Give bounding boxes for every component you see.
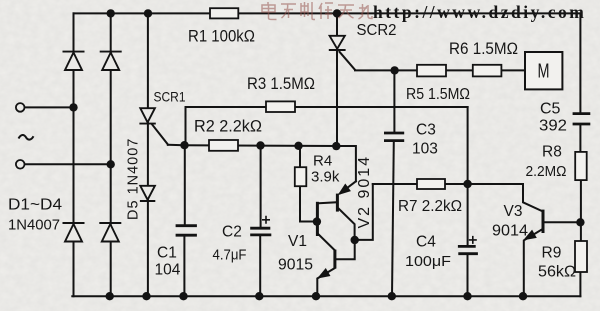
node bottom D5: [142, 292, 150, 300]
wire right rail R9-bottom: [579, 272, 581, 296]
wire right rail C5-R8: [579, 125, 581, 152]
svg-text:V2 9014: V2 9014: [356, 155, 373, 229]
svg-text:R1 100kΩ: R1 100kΩ: [188, 28, 255, 46]
svg-text:R8: R8: [542, 144, 562, 161]
wire SCR1 gate: [152, 125, 168, 145]
node R7 C4: [463, 180, 471, 188]
wire R2 row: [168, 145, 336, 146]
wire V3 collector: [543, 221, 580, 223]
resistor R7: [417, 179, 445, 189]
thyristor SCR1: [139, 108, 155, 123]
wire R3 row: [186, 106, 468, 108]
node terminal2 rail: [107, 160, 115, 168]
wire V2 collector to V1: [318, 234, 335, 251]
svg-text:C3: C3: [416, 122, 436, 139]
wire right rail R8-R9: [580, 180, 582, 241]
wire second bridge rail: [110, 13, 112, 296]
wire V1 base lead: [336, 240, 355, 259]
wire V1 emitter: [317, 268, 335, 296]
diode D1 bridge top-left: [63, 52, 85, 70]
wire node B to R7 row: [355, 184, 373, 240]
capacitor C5: [573, 114, 591, 124]
wire left bridge rail: [73, 13, 75, 296]
svg-text:100μF: 100μF: [405, 253, 451, 270]
node bottom V3 emitter: [519, 292, 527, 300]
wire bottom bus: [72, 295, 580, 297]
wire C2 upper lead: [260, 146, 262, 228]
svg-text:C4: C4: [416, 234, 436, 251]
terminal input 1: [16, 103, 25, 112]
svg-text:R5 1.5MΩ: R5 1.5MΩ: [406, 86, 470, 103]
node bottom V1 emitter: [312, 292, 320, 300]
node top bus D2: [107, 9, 115, 17]
node bottom D2 rail: [106, 292, 114, 300]
svg-text:R4: R4: [313, 153, 332, 170]
wire C1 upper lead: [184, 145, 186, 225]
svg-text:D5 1N4007: D5 1N4007: [126, 138, 142, 220]
capacitor C4: [458, 246, 478, 253]
wire V2 emitter diag: [340, 181, 356, 193]
wire R5 R6 row: [355, 69, 525, 71]
svg-text:104: 104: [155, 262, 181, 279]
diode D5: [140, 186, 155, 201]
wire C2 lower lead: [259, 235, 261, 296]
motor M box: [525, 52, 562, 89]
resistor R4: [295, 167, 307, 186]
node B V1 base: [351, 236, 359, 244]
svg-text:103: 103: [412, 141, 438, 158]
wire right column junction: [467, 107, 469, 246]
arrow V3 emitter: [525, 231, 537, 240]
svg-text:C2: C2: [222, 224, 242, 241]
C2 plus sign: [262, 216, 270, 224]
transistor V3 base bar: [542, 210, 545, 233]
svg-text:9015: 9015: [278, 257, 313, 274]
wire C4 lower lead: [467, 254, 469, 297]
node top bus SCR2: [333, 9, 341, 17]
svg-text:R2 2.2kΩ: R2 2.2kΩ: [194, 118, 262, 136]
wire R3-R2 link: [185, 107, 187, 145]
wire right rail upper: [579, 13, 581, 112]
node bottom C2: [255, 292, 263, 300]
svg-text:1N4007: 1N4007: [8, 217, 60, 234]
resistor R5: [417, 65, 446, 77]
resistor R9: [575, 241, 587, 272]
svg-text:3.9k: 3.9k: [311, 169, 340, 186]
wire input terminal 2: [25, 163, 111, 165]
resistor R8: [575, 152, 587, 180]
resistor R3: [266, 101, 295, 112]
node top bus SCR1: [144, 9, 152, 17]
svg-text:2.2MΩ: 2.2MΩ: [526, 163, 567, 180]
C4 plus sign: [469, 236, 477, 244]
svg-text:SCR2: SCR2: [357, 22, 397, 39]
svg-text:D1~D4: D1~D4: [8, 197, 62, 214]
terminal input 2: [16, 160, 25, 169]
node bottom C1: [179, 292, 187, 300]
svg-text:R9: R9: [542, 245, 562, 262]
svg-text:V3: V3: [504, 203, 523, 220]
watermark chinese chars: [262, 2, 372, 20]
svg-text:R3 1.5MΩ: R3 1.5MΩ: [247, 75, 315, 93]
wire SCR1 / D5 string: [147, 13, 149, 296]
thyristor SCR2: [329, 36, 346, 50]
resistor R1: [210, 8, 238, 18]
capacitor C3: [384, 133, 404, 141]
diode D2 bridge top-right: [100, 52, 122, 70]
wire C3 upper lead: [393, 70, 395, 133]
transistor V1 base bar: [333, 250, 336, 269]
resistor R6: [473, 65, 502, 77]
diode D3 bridge bottom-left: [63, 223, 85, 242]
svg-text:R6 1.5MΩ: R6 1.5MΩ: [449, 40, 518, 58]
transistor V2 base bar: [336, 194, 339, 212]
resistor R2: [209, 140, 238, 151]
capacitor C1: [176, 226, 197, 236]
wire R7 row: [373, 183, 523, 185]
node gate R2 C1: [180, 141, 188, 149]
node terminal1 rail: [69, 103, 77, 111]
wire top bus: [74, 12, 581, 14]
node V1 upper bar R4: [313, 217, 321, 225]
capacitor C2: [250, 228, 271, 235]
wire R4 bottom lead: [300, 186, 317, 221]
wire SCR2 gate: [340, 52, 356, 70]
node V3 collector rail: [576, 218, 584, 226]
arrow V2 emitter: [339, 184, 350, 194]
diode D4 bridge bottom-right: [99, 223, 121, 242]
AC tilde: [19, 135, 34, 140]
node R5 C3: [390, 66, 398, 74]
wire node A to V2 emitter: [336, 146, 356, 181]
wire C1 lower lead: [183, 235, 185, 296]
svg-text:R7 2.2kΩ: R7 2.2kΩ: [398, 198, 462, 215]
svg-text:C5: C5: [540, 101, 561, 118]
svg-text:V1: V1: [288, 233, 307, 250]
svg-text:56kΩ: 56kΩ: [538, 264, 576, 281]
svg-text:392: 392: [539, 118, 567, 135]
wire R4 top lead: [299, 146, 301, 167]
node R2 C2: [256, 141, 264, 149]
svg-text:4.7μF: 4.7μF: [213, 247, 247, 264]
svg-text:http://www.dzdiy.com: http://www.dzdiy.com: [373, 2, 586, 22]
svg-text:SCR1: SCR1: [154, 89, 186, 105]
svg-text:M: M: [538, 61, 550, 83]
node bottom C4: [463, 292, 471, 300]
wire V1-V2 base link: [318, 202, 338, 203]
wire V3 emitter: [524, 229, 543, 296]
transistor V1 upper bar: [316, 202, 319, 236]
wire V3 base lead: [523, 184, 542, 211]
svg-text:C1: C1: [157, 245, 177, 262]
svg-text:9014: 9014: [492, 223, 528, 240]
wire input terminal 1: [25, 106, 74, 108]
wire V2 collector diag: [339, 209, 355, 240]
wire SCR2 anode-cathode string: [336, 13, 338, 146]
node A SCR2 cathode: [332, 142, 340, 150]
node R4 top: [294, 142, 302, 150]
node bottom C3: [388, 292, 396, 300]
wire C3 lower lead: [392, 141, 394, 297]
arrow V1 emitter: [318, 269, 330, 278]
